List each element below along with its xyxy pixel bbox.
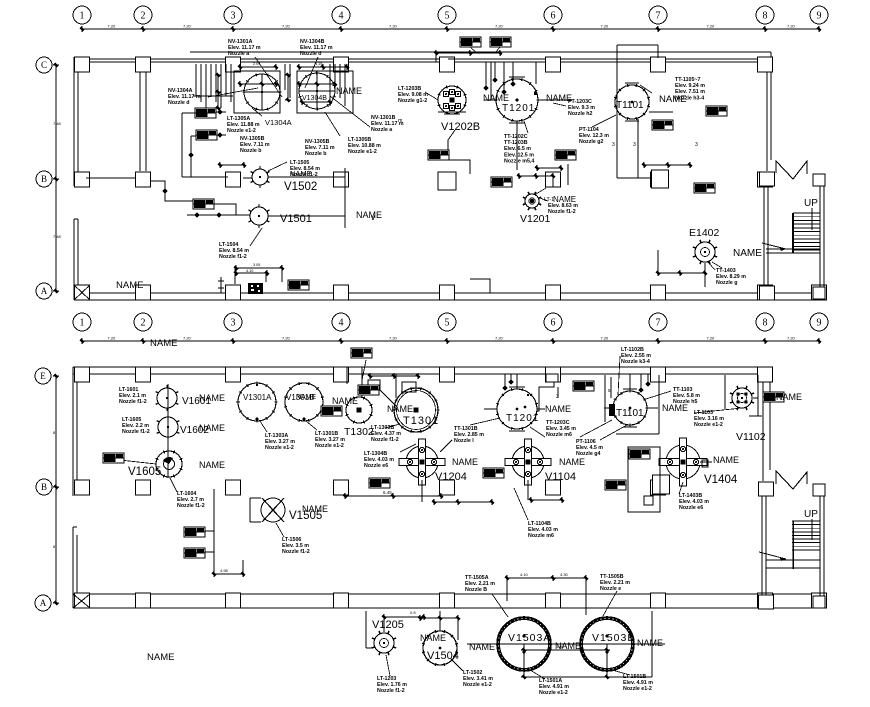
svg-text:3: 3 — [612, 142, 615, 148]
svg-text:Nozzle m6: Nozzle m6 — [528, 533, 554, 539]
svg-text:LT-1502: LT-1502 — [463, 670, 482, 676]
svg-text:PT-1203C: PT-1203C — [568, 99, 592, 105]
svg-text:Nozzle d: Nozzle d — [300, 51, 321, 57]
svg-text:7.20: 7.20 — [183, 24, 192, 29]
svg-text:3: 3 — [695, 142, 698, 148]
svg-text:0.8: 0.8 — [410, 610, 416, 615]
svg-text:Elev. 4.5 m: Elev. 4.5 m — [576, 445, 603, 451]
svg-text:TT-1203B: TT-1203B — [504, 140, 528, 146]
svg-text:Elev. 8.63 m: Elev. 8.63 m — [548, 203, 578, 209]
svg-text:LT-1103: LT-1103 — [694, 410, 713, 416]
svg-text:NAME: NAME — [147, 652, 174, 663]
svg-text:NAME: NAME — [199, 460, 225, 470]
svg-text:Elev. 11.88 m: Elev. 11.88 m — [227, 122, 260, 128]
svg-text:4: 4 — [339, 318, 344, 329]
svg-text:V1503B: V1503B — [592, 632, 635, 644]
svg-text:LT-1605: LT-1605 — [122, 417, 141, 423]
svg-text:6: 6 — [551, 318, 556, 329]
svg-text:NAME: NAME — [302, 504, 328, 514]
svg-text:NAME: NAME — [559, 457, 585, 467]
svg-text:V1301A: V1301A — [243, 393, 272, 402]
svg-text:T1201: T1201 — [502, 103, 535, 114]
svg-text:V1201: V1201 — [520, 213, 551, 225]
svg-text:E: E — [40, 371, 46, 381]
svg-text:Elev. 8.54 m: Elev. 8.54 m — [290, 166, 320, 172]
svg-text:Nozzle f1-2: Nozzle f1-2 — [219, 254, 247, 260]
svg-text:7.20: 7.20 — [601, 336, 610, 341]
svg-text:NV-1305B: NV-1305B — [240, 136, 265, 142]
svg-text:V1204: V1204 — [435, 471, 467, 483]
svg-text:Elev. 11.17 m: Elev. 11.17 m — [228, 45, 261, 51]
svg-text:V1504: V1504 — [427, 650, 459, 662]
svg-text:V1404: V1404 — [704, 474, 738, 486]
svg-text:NAME: NAME — [637, 638, 663, 648]
svg-text:A: A — [41, 286, 48, 296]
svg-text:Nozzle m5,4: Nozzle m5,4 — [504, 158, 534, 164]
svg-text:6.45: 6.45 — [383, 490, 392, 495]
svg-text:7.20: 7.20 — [282, 24, 291, 29]
svg-text:Nozzle e1-2: Nozzle e1-2 — [348, 149, 377, 155]
svg-text:NAME: NAME — [332, 396, 358, 406]
svg-text:NAME: NAME — [420, 633, 446, 643]
svg-text:NAME: NAME — [356, 210, 382, 220]
svg-text:NAME: NAME — [199, 423, 225, 433]
svg-text:B: B — [41, 482, 47, 492]
svg-text:Nozzle e1-2: Nozzle e1-2 — [539, 690, 568, 696]
svg-text:Elev. 4.91 m: Elev. 4.91 m — [623, 680, 653, 686]
svg-text:Elev. 4.03 m: Elev. 4.03 m — [364, 457, 394, 463]
svg-text:Nozzle e: Nozzle e — [600, 586, 621, 592]
svg-text:Elev. 3.27 m: Elev. 3.27 m — [265, 439, 295, 445]
svg-text:Nozzle l: Nozzle l — [454, 438, 474, 444]
svg-text:Elev. 3.16 m: Elev. 3.16 m — [694, 416, 724, 422]
svg-text:7.20: 7.20 — [108, 336, 117, 341]
svg-text:UP: UP — [804, 509, 818, 520]
svg-text:LT-1303A: LT-1303A — [265, 433, 288, 439]
svg-text:m: m — [398, 118, 403, 124]
svg-text:Nozzle f1-2: Nozzle f1-2 — [290, 172, 318, 178]
svg-text:Nozzle e1-2: Nozzle e1-2 — [623, 686, 652, 692]
svg-text:5: 5 — [445, 318, 450, 329]
svg-text:UP: UP — [804, 198, 818, 209]
svg-text:T1101: T1101 — [616, 100, 644, 111]
svg-text:Elev. 9.3 m: Elev. 9.3 m — [568, 105, 595, 111]
svg-text:7.20: 7.20 — [282, 336, 291, 341]
svg-text:NAME: NAME — [150, 338, 177, 349]
svg-text:PT-1106: PT-1106 — [576, 439, 596, 445]
svg-text:Nozzle e6: Nozzle e6 — [364, 463, 388, 469]
svg-text:Nozzle a: Nozzle a — [228, 51, 249, 57]
svg-text:8: 8 — [763, 318, 768, 329]
svg-text:V1304B: V1304B — [302, 95, 327, 102]
svg-text:NAME: NAME — [483, 93, 509, 103]
svg-text:7.20: 7.20 — [601, 24, 610, 29]
svg-text:Nozzle g1-2: Nozzle g1-2 — [398, 98, 427, 104]
svg-text:TT-1203C: TT-1203C — [546, 420, 570, 426]
svg-text:7.20: 7.20 — [707, 24, 716, 29]
svg-text:Nozzle e1-2: Nozzle e1-2 — [265, 445, 294, 451]
svg-text:7.20: 7.20 — [495, 336, 504, 341]
svg-text:LT-1601: LT-1601 — [119, 387, 138, 393]
svg-text:Nozzle b: Nozzle b — [305, 151, 327, 157]
svg-text:LT-1304B: LT-1304B — [364, 451, 387, 457]
svg-text:Elev. 2.85 m: Elev. 2.85 m — [454, 432, 484, 438]
svg-text:LT-1203B: LT-1203B — [398, 86, 421, 92]
svg-text:7: 7 — [656, 318, 661, 329]
svg-text:Elev. 3.45 m: Elev. 3.45 m — [546, 426, 576, 432]
svg-text:9: 9 — [817, 318, 822, 329]
svg-text:Elev. 4.03 m: Elev. 4.03 m — [528, 527, 558, 533]
svg-text:NV-1305B: NV-1305B — [305, 139, 330, 145]
svg-text:4.10: 4.10 — [246, 269, 253, 273]
svg-text:7.20: 7.20 — [108, 24, 117, 29]
svg-text:LT-1403B: LT-1403B — [679, 493, 702, 499]
svg-text:Nozzle e1-2: Nozzle e1-2 — [227, 128, 256, 134]
svg-text:Elev. 9.08 m: Elev. 9.08 m — [398, 92, 428, 98]
svg-text:7.20: 7.20 — [495, 24, 504, 29]
svg-text:7.20: 7.20 — [707, 336, 716, 341]
svg-text:Elev. 2.7 m: Elev. 2.7 m — [177, 497, 204, 503]
svg-text:Nozzle e1-2: Nozzle e1-2 — [315, 443, 344, 449]
svg-text:7: 7 — [656, 11, 661, 22]
svg-text:LT-1501B: LT-1501B — [623, 674, 646, 680]
svg-text:Elev. 4.91 m: Elev. 4.91 m — [539, 684, 569, 690]
svg-text:LT-1: LT-1 — [544, 197, 554, 203]
svg-text:8: 8 — [763, 11, 768, 22]
svg-text:T1201: T1201 — [506, 413, 539, 424]
svg-text:Nozzle h2: Nozzle h2 — [568, 111, 592, 117]
svg-text:NAME: NAME — [713, 455, 739, 465]
svg-text:LT-1501A: LT-1501A — [539, 678, 562, 684]
svg-text:V1501: V1501 — [280, 213, 312, 225]
svg-text:Elev. 11.17 m: Elev. 11.17 m — [300, 45, 333, 51]
svg-text:TT-1103: TT-1103 — [673, 387, 692, 393]
svg-text:Nozzle g: Nozzle g — [716, 280, 737, 286]
svg-text:3: 3 — [231, 318, 236, 329]
svg-text:NAME: NAME — [336, 86, 362, 96]
svg-text:Nozzle f1-2: Nozzle f1-2 — [177, 503, 205, 509]
svg-text:Nozzle a: Nozzle a — [371, 127, 392, 133]
svg-text:V1502: V1502 — [284, 181, 317, 193]
svg-text:4.98: 4.98 — [220, 568, 229, 573]
svg-text:NAME: NAME — [199, 393, 225, 403]
svg-text:Nozzle f1-2: Nozzle f1-2 — [122, 429, 150, 435]
svg-text:Elev. 2.1 m: Elev. 2.1 m — [119, 393, 146, 399]
svg-text:NAME: NAME — [555, 641, 581, 651]
svg-text:Elev. 3.41 m: Elev. 3.41 m — [463, 676, 493, 682]
svg-text:Nozzle f1-2: Nozzle f1-2 — [282, 549, 310, 555]
svg-text:Elev. 3.5 m: Elev. 3.5 m — [282, 543, 309, 549]
svg-text:NV-1304A: NV-1304A — [168, 88, 193, 94]
svg-text:LT-1301B: LT-1301B — [315, 431, 338, 437]
svg-text:Elev. 2.21 m: Elev. 2.21 m — [465, 581, 495, 587]
svg-text:V1605: V1605 — [128, 466, 161, 478]
svg-text:PT-1104: PT-1104 — [579, 127, 599, 133]
svg-text:Elev. 12.3 m: Elev. 12.3 m — [579, 133, 609, 139]
svg-text:1: 1 — [80, 318, 85, 329]
svg-text:Nozzle h3-4: Nozzle h3-4 — [675, 95, 704, 101]
svg-text:NAME: NAME — [733, 248, 762, 259]
svg-text:E1402: E1402 — [689, 227, 720, 239]
svg-text:V1503A: V1503A — [508, 632, 551, 644]
svg-text:Elev. 7.11 m: Elev. 7.11 m — [240, 142, 270, 148]
svg-text:LT-1305A: LT-1305A — [227, 116, 250, 122]
svg-text:Nozzle d: Nozzle d — [168, 100, 189, 106]
svg-text:NAME: NAME — [452, 457, 478, 467]
svg-text:LT-1303B: LT-1303B — [371, 425, 394, 431]
svg-text:7.20: 7.20 — [787, 336, 796, 341]
svg-text:7.20: 7.20 — [787, 24, 796, 29]
svg-text:Elev. 6.5 m: Elev. 6.5 m — [504, 146, 531, 152]
svg-text:LT-1104B: LT-1104B — [528, 521, 551, 527]
svg-text:TT-1505A: TT-1505A — [465, 575, 489, 581]
svg-text:2: 2 — [141, 11, 146, 22]
svg-text:Nozzle k3-4: Nozzle k3-4 — [621, 359, 650, 365]
svg-text:TT-1301B: TT-1301B — [454, 426, 478, 432]
svg-text:NV-1301A: NV-1301A — [228, 39, 253, 45]
svg-text:Nozzle e1-2: Nozzle e1-2 — [463, 682, 492, 688]
svg-text:3: 3 — [556, 394, 559, 400]
svg-text:Elev. 3.27 m: Elev. 3.27 m — [315, 437, 345, 443]
svg-text:V1202B: V1202B — [441, 121, 480, 133]
svg-text:7.48: 7.48 — [53, 234, 62, 239]
svg-text:B: B — [41, 174, 47, 184]
svg-text:NAME: NAME — [776, 392, 802, 402]
svg-text:4.30: 4.30 — [560, 572, 569, 577]
svg-text:Elev. 7.11 m: Elev. 7.11 m — [305, 145, 335, 151]
svg-text:Nozzle f1-2: Nozzle f1-2 — [371, 437, 399, 443]
svg-text:Elev. 8.29 m: Elev. 8.29 m — [716, 274, 746, 280]
svg-text:LT-1203: LT-1203 — [377, 676, 396, 682]
svg-text:LT-1604: LT-1604 — [177, 491, 196, 497]
svg-text:2: 2 — [141, 318, 146, 329]
svg-text:TT-1505B: TT-1505B — [600, 574, 624, 580]
svg-text:V1104: V1104 — [545, 471, 576, 483]
svg-text:LT-1102B: LT-1102B — [621, 347, 644, 353]
svg-text:Elev. 4.03 m: Elev. 4.03 m — [679, 499, 709, 505]
svg-text:NAME: NAME — [116, 280, 143, 291]
svg-text:Elev. 2.55 m: Elev. 2.55 m — [621, 353, 651, 359]
svg-text:NV-1301B: NV-1301B — [371, 115, 396, 121]
svg-text:9: 9 — [817, 11, 822, 22]
svg-text:4: 4 — [339, 11, 344, 22]
svg-text:V1102: V1102 — [736, 431, 766, 443]
svg-text:LT-1504: LT-1504 — [219, 242, 238, 248]
svg-text:Elev. 4.37 m: Elev. 4.37 m — [371, 431, 401, 437]
svg-text:4.15: 4.15 — [315, 62, 322, 66]
svg-text:7.20: 7.20 — [389, 336, 398, 341]
svg-text:LT-1506: LT-1506 — [282, 537, 301, 543]
svg-text:1: 1 — [80, 11, 85, 22]
svg-text:Elev. 7.51 m: Elev. 7.51 m — [675, 89, 705, 95]
svg-text:LT-1505: LT-1505 — [290, 160, 309, 166]
svg-text:T1301: T1301 — [403, 415, 439, 427]
svg-text:6: 6 — [551, 11, 556, 22]
svg-text:TT-1202C: TT-1202C — [504, 134, 528, 140]
svg-text:4.10: 4.10 — [520, 572, 529, 577]
svg-text:Nozzle e6: Nozzle e6 — [679, 505, 703, 511]
svg-text:Nozzle e1-2: Nozzle e1-2 — [694, 422, 723, 428]
svg-text:NAME: NAME — [545, 404, 571, 414]
svg-text:Elev. 8.54 m: Elev. 8.54 m — [219, 248, 249, 254]
svg-text:V1304A: V1304A — [265, 118, 292, 127]
svg-text:LT-1305B: LT-1305B — [348, 137, 371, 143]
svg-text:A: A — [40, 598, 47, 608]
svg-text:NV-1304B: NV-1304B — [300, 39, 325, 45]
svg-text:NAME: NAME — [469, 642, 495, 652]
svg-text:Elev. 2.2 m: Elev. 2.2 m — [122, 423, 149, 429]
svg-text:Elev. 12.5 m: Elev. 12.5 m — [504, 152, 534, 158]
svg-text:V1205: V1205 — [372, 619, 404, 631]
svg-text:7.20: 7.20 — [389, 24, 398, 29]
svg-text:7.20: 7.20 — [183, 336, 192, 341]
svg-text:Elev. 1.76 m: Elev. 1.76 m — [377, 682, 407, 688]
svg-text:Nozzle m6: Nozzle m6 — [546, 432, 572, 438]
svg-text:T1302: T1302 — [344, 426, 374, 438]
svg-text:Elev. 5.8 m: Elev. 5.8 m — [673, 393, 700, 399]
svg-text:NAME: NAME — [296, 394, 317, 401]
svg-text:Nozzle h5: Nozzle h5 — [673, 399, 697, 405]
svg-text:Nozzle f1-2: Nozzle f1-2 — [548, 209, 576, 215]
svg-text:Nozzle f1-2: Nozzle f1-2 — [377, 688, 405, 694]
svg-text:3.05: 3.05 — [253, 263, 260, 267]
svg-text:5: 5 — [445, 11, 450, 22]
svg-text:7.48: 7.48 — [53, 121, 62, 126]
svg-text:Nozzle f1-2: Nozzle f1-2 — [119, 399, 147, 405]
svg-text:Nozzle g2: Nozzle g2 — [579, 139, 603, 145]
svg-text:TT-1403: TT-1403 — [716, 268, 736, 274]
svg-text:Nozzle b: Nozzle b — [240, 148, 262, 154]
svg-text:Elev. 10.88 m: Elev. 10.88 m — [348, 143, 381, 149]
svg-text:3: 3 — [633, 142, 636, 148]
svg-text:TT-1105~7: TT-1105~7 — [675, 77, 701, 83]
svg-text:C: C — [41, 60, 47, 70]
svg-text:Elev. 2.21 m: Elev. 2.21 m — [600, 580, 630, 586]
svg-text:Nozzle B: Nozzle B — [465, 587, 487, 593]
svg-text:T1101: T1101 — [616, 408, 644, 419]
svg-text:3: 3 — [231, 11, 236, 22]
svg-text:Elev. 11.17 m: Elev. 11.17 m — [168, 94, 201, 100]
svg-text:NAME: NAME — [387, 404, 413, 414]
svg-text:Elev. 9.24 m: Elev. 9.24 m — [675, 83, 705, 89]
svg-text:Nozzle g4: Nozzle g4 — [576, 451, 600, 457]
